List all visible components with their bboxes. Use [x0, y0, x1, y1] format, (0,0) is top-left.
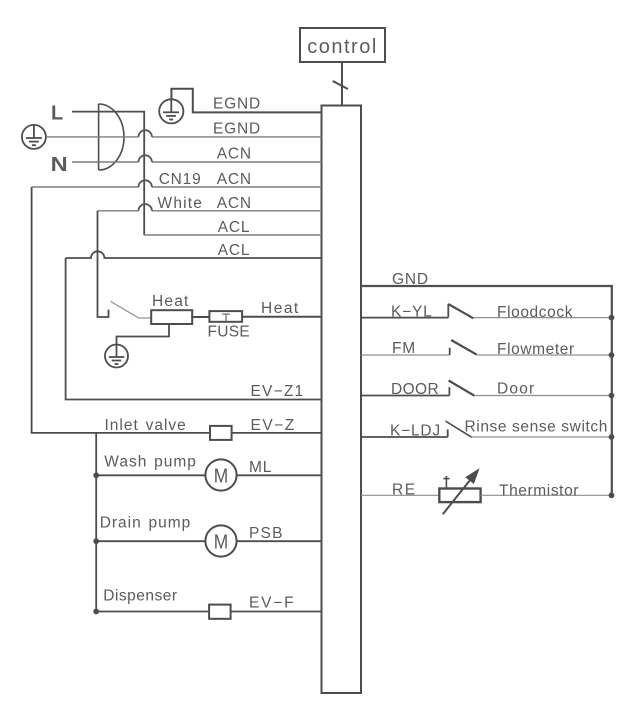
- svg-text:FUSE: FUSE: [208, 324, 251, 341]
- motor M1 (wash pump): [205, 459, 236, 490]
- svg-text:Thermistor: Thermistor: [499, 482, 579, 499]
- wire ACL row2 (hop over White ACN drop): [66, 251, 322, 258]
- svg-text:Door: Door: [497, 381, 535, 398]
- junction dot floodcock: [609, 315, 615, 321]
- svg-text:Drain pump: Drain pump: [100, 515, 192, 532]
- switch S4 door: [449, 381, 475, 396]
- svg-text:PSB: PSB: [249, 525, 284, 542]
- svg-text:EV−F: EV−F: [249, 595, 295, 612]
- wire ACL row1 (from L drop corner to bus): [144, 234, 321, 236]
- svg-text:EV−Z: EV−Z: [251, 417, 296, 434]
- svg-text:K−YL: K−YL: [391, 304, 433, 321]
- wire L to ACL corner: [72, 112, 144, 235]
- svg-text:Dispenser: Dispenser: [103, 588, 177, 605]
- svg-text:ACN: ACN: [217, 195, 252, 212]
- wire ACN row (from N, hop over L drop): [72, 161, 322, 163]
- svg-text:EV−Z1: EV−Z1: [251, 383, 305, 400]
- wire RE row: [361, 494, 439, 496]
- junction dot wash: [93, 472, 99, 478]
- wire control to connector: [341, 62, 343, 106]
- bus tick mark: [333, 81, 348, 89]
- fuse F1 (thermal fuse): [209, 311, 242, 322]
- svg-text:Flowmeter: Flowmeter: [497, 341, 575, 358]
- svg-text:ML: ML: [249, 459, 272, 476]
- wire rinse sense to rail: [472, 436, 612, 438]
- svg-text:Heat: Heat: [152, 293, 190, 310]
- svg-text:M: M: [214, 531, 228, 554]
- wire ML to bus: [237, 474, 322, 476]
- wire door to rail: [474, 395, 611, 397]
- svg-text:K−LDJ: K−LDJ: [390, 423, 441, 440]
- wire DOOR row: [361, 395, 449, 397]
- svg-text:N: N: [51, 153, 68, 176]
- switch S1 heater (blade): [111, 301, 139, 318]
- svg-text:CN19: CN19: [159, 171, 202, 188]
- switch S3 flowmeter: [450, 340, 477, 355]
- ground symbol E2 (left earth, EGND): [22, 125, 46, 149]
- wire EV-F to bus: [230, 611, 321, 613]
- svg-text:Rinse sense switch: Rinse sense switch: [465, 419, 608, 436]
- svg-text:ACN: ACN: [217, 171, 252, 188]
- valve EV-F (dispenser box): [209, 605, 231, 619]
- svg-text:control: control: [307, 36, 378, 58]
- control box U1: [300, 28, 385, 62]
- wire flowmeter to rail: [477, 354, 612, 356]
- svg-text:White: White: [158, 195, 204, 212]
- wire blade to heater: [139, 317, 151, 319]
- valve EV-Z (inlet valve box): [210, 426, 232, 440]
- wire thermistor to rail: [481, 494, 612, 496]
- svg-text:ACL: ACL: [218, 219, 251, 236]
- svg-text:ACL: ACL: [218, 242, 251, 259]
- motor M2 (drain pump): [205, 525, 236, 556]
- junction dot flowmeter: [609, 352, 615, 358]
- switch S5 rinse sense: [446, 421, 472, 437]
- wire K-LDJ row: [361, 436, 448, 438]
- wire White ACN drop (to heater switch): [98, 211, 109, 317]
- svg-text:Wash pump: Wash pump: [104, 454, 197, 471]
- svg-text:Floodcock: Floodcock: [497, 304, 573, 321]
- wire EV-Z to bus: [232, 432, 322, 434]
- ground symbol E3 (heater earth): [105, 345, 128, 368]
- wire CN19 ACN row (hop over L drop): [32, 186, 322, 188]
- wire White ACN row (hop over L drop): [98, 210, 322, 212]
- wire heater to earth E3: [117, 323, 170, 345]
- wire dispenser row: [96, 611, 209, 613]
- svg-text:GND: GND: [392, 271, 429, 288]
- ground symbol E1 (top earth, EGND): [159, 99, 183, 123]
- junction dot dispenser: [93, 609, 99, 615]
- wire feeder drop (inlet to dispenser): [95, 433, 97, 612]
- svg-text:EGND: EGND: [213, 121, 261, 138]
- svg-text:L: L: [51, 103, 63, 125]
- wire ACL2 drop to EV-Z1 (left loop): [66, 258, 322, 400]
- plug P1 (mains plug D-shape): [99, 104, 124, 170]
- svg-text:Heat: Heat: [261, 300, 300, 317]
- svg-text:RE: RE: [392, 482, 417, 499]
- wire FM row: [361, 354, 450, 356]
- svg-text:EGND: EGND: [213, 96, 261, 113]
- svg-text:ACN: ACN: [217, 146, 252, 163]
- thermistor RT1: [439, 468, 480, 514]
- wire EGND row2 (left earth to bus, hop over L drop): [46, 136, 322, 138]
- wire PSB to bus: [237, 540, 322, 542]
- svg-text:M: M: [214, 465, 228, 488]
- junction dot drain: [93, 538, 99, 544]
- junction dot rinse: [609, 434, 615, 440]
- wire CN19 drop to inlet valve: [32, 187, 210, 433]
- svg-text:FM: FM: [392, 340, 416, 357]
- wire GND to right rail: [361, 286, 612, 495]
- svg-text:DOOR: DOOR: [391, 381, 439, 398]
- wire EGND row1 (hook from earth E1 to bus): [171, 89, 321, 113]
- wire wash pump row: [96, 474, 205, 476]
- connector bus CN (control board connector): [322, 106, 362, 694]
- wire heater to fuse: [191, 316, 209, 318]
- svg-text:Inlet valve: Inlet valve: [105, 417, 187, 434]
- junction dot door: [609, 393, 615, 399]
- wire drain pump row: [96, 540, 205, 542]
- wire floodcock to rail: [473, 317, 611, 319]
- heater R1 (Heat element box): [151, 310, 192, 324]
- junction dot thermistor: [609, 492, 615, 498]
- switch S2 floodcock: [448, 304, 473, 318]
- wire Heat to bus: [242, 316, 321, 318]
- wire K-YL row: [361, 317, 448, 319]
